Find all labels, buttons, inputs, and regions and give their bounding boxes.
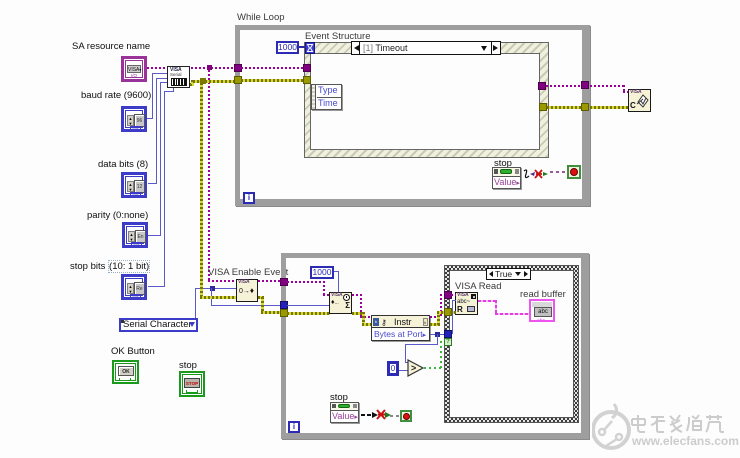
wire blue branch down to comparison — [437, 334, 438, 345]
wire 1000 to timeout terminal — [299, 46, 306, 48]
label stop — [179, 360, 197, 371]
control data bits numeric — [121, 172, 147, 198]
svg-text:>: > — [411, 363, 416, 373]
tunnel purple on event left — [303, 64, 311, 72]
control parity numeric — [122, 222, 148, 248]
label stop (bottom loop) — [330, 392, 348, 403]
property node Instr / Bytes at Port — [371, 315, 430, 341]
event selector [1] Timeout — [351, 41, 501, 55]
tunnel olive bottom loop left — [280, 309, 288, 317]
wire olive stub to VISA Read — [450, 311, 456, 314]
control stop boolean — [179, 371, 205, 397]
label baud rate (9600) — [81, 90, 151, 101]
indicator read buffer — [529, 299, 555, 322]
wire blue Bytes at Port to tunnel — [430, 334, 445, 335]
junction purple — [207, 65, 212, 70]
tunnel purple on loop right — [581, 81, 589, 89]
wire purple inside bottom loop — [287, 281, 325, 283]
iteration terminal [i] bottom loop — [288, 421, 300, 433]
wire olive wait to property node — [352, 312, 364, 315]
wire olive to VISA Close — [590, 106, 628, 109]
label VISA Enable Event — [208, 267, 288, 278]
label VISA Read — [455, 281, 501, 292]
control OK Button boolean — [112, 360, 139, 384]
wire purple wait to property node — [352, 294, 362, 296]
wire branch to loop tunnel (event type) — [211, 288, 212, 306]
control Serial Character combo box — [119, 318, 198, 332]
constant 1000 (bottom) — [310, 266, 334, 279]
label stop (top loop) — [494, 158, 512, 169]
while loop (top) — [235, 25, 590, 206]
wire olive property node to case — [430, 323, 440, 326]
control baud rate numeric — [121, 106, 147, 132]
tunnel purple bottom loop left — [280, 278, 288, 286]
tunnel purple on event right — [538, 82, 546, 90]
tunnel purple case left — [444, 291, 452, 299]
wire olive to wait icon — [287, 312, 330, 315]
junction olive — [200, 78, 206, 84]
label Event Structure — [305, 31, 370, 42]
label stop bits (10: 1 bit) with selection dots — [70, 261, 150, 272]
event data node Type/Time — [311, 84, 342, 110]
label parity (0:none) — [87, 210, 148, 221]
wire data bits to VISA config — [148, 183, 157, 184]
wire 0 to comparison — [399, 370, 409, 371]
wire purple to VISA Close — [590, 85, 625, 87]
wire VISA resource purple dashed — [147, 67, 235, 69]
wire error olive from config icon — [190, 83, 194, 86]
wire parity to VISA config — [148, 235, 161, 236]
case structure — [444, 265, 579, 423]
label OK Button — [111, 346, 155, 357]
wire olive enable icon to loop tunnel — [258, 296, 264, 299]
timeout terminal (hourglass) — [305, 42, 315, 54]
broken wire glyphs (top) — [521, 165, 551, 185]
gray dashes to conditional terminal (bottom) — [390, 415, 401, 417]
tunnel olive case left — [444, 308, 452, 316]
broken wire glyphs (bottom) — [359, 408, 401, 422]
wire green comparison to selector tunnel — [424, 367, 442, 369]
VISA Enable Event icon — [236, 279, 258, 302]
wire purple down to VISA Enable Event — [208, 70, 210, 282]
watermark www.elecfans.com — [632, 434, 739, 448]
wire purple event right to loop right — [546, 85, 582, 87]
control SA resource name (VISA resource, purple) — [121, 56, 147, 82]
constant 0 — [387, 361, 399, 376]
event structure frame — [304, 42, 549, 158]
wire baud rate to VISA config — [147, 118, 153, 119]
tunnel olive on loop left — [234, 76, 242, 84]
label While Loop — [237, 12, 285, 23]
wire purple inside loop to event structure — [241, 67, 305, 69]
control stop bits numeric — [121, 274, 147, 300]
tunnel purple on loop left — [234, 64, 242, 72]
constant 1000 (top) — [276, 41, 299, 54]
VISA Configure Serial Port icon — [167, 66, 190, 88]
wire pink VISA Read to read buffer — [478, 300, 497, 302]
tunnel blue case left — [444, 330, 452, 338]
case selector True — [486, 268, 531, 280]
wire blue event type to wait icon — [287, 305, 330, 306]
tunnel olive on event left — [303, 76, 311, 84]
wire stop bits to VISA config — [148, 286, 165, 287]
VISA Read icon — [455, 292, 478, 315]
label SA resource name — [72, 41, 150, 52]
tunnel blue bottom loop left — [280, 301, 288, 309]
VISA Close icon — [628, 89, 651, 112]
wire olive down to VISA Enable Event — [200, 83, 203, 298]
wire Serial Character up — [195, 288, 196, 318]
comparison greater-than node — [407, 359, 425, 378]
wire olive event right to loop right — [547, 106, 582, 109]
property node stop (bottom loop) — [330, 402, 359, 423]
watermark chinese text 电子发烧友 — [630, 413, 725, 435]
wire 1000 to wait icon top — [334, 271, 339, 272]
VISA Wait on Event icon — [329, 292, 352, 314]
label read buffer — [520, 289, 566, 300]
wire purple enable icon to loop tunnel — [258, 280, 282, 282]
wire purple property node to case — [430, 316, 442, 318]
property node stop (top loop) — [492, 167, 521, 189]
while loop (bottom) — [281, 253, 589, 439]
conditional terminal (bottom loop) — [400, 410, 412, 422]
tunnel olive on loop right — [581, 103, 589, 111]
tunnel olive on event right — [539, 103, 547, 111]
label data bits (8) — [98, 159, 148, 170]
junction serial wire — [210, 286, 215, 291]
wire purple stub to VISA Read — [451, 294, 456, 296]
iteration terminal [i] top loop — [243, 192, 255, 204]
wire blue count to VISA Read — [452, 300, 453, 334]
conditional terminal (top loop) — [567, 165, 581, 179]
junction blue — [435, 332, 440, 337]
watermark elecfans logo — [592, 402, 632, 454]
gray dashes to conditional terminal (top) — [550, 171, 567, 173]
selector tunnel ? — [444, 338, 452, 346]
wire olive inside loop to event structure — [241, 79, 305, 82]
